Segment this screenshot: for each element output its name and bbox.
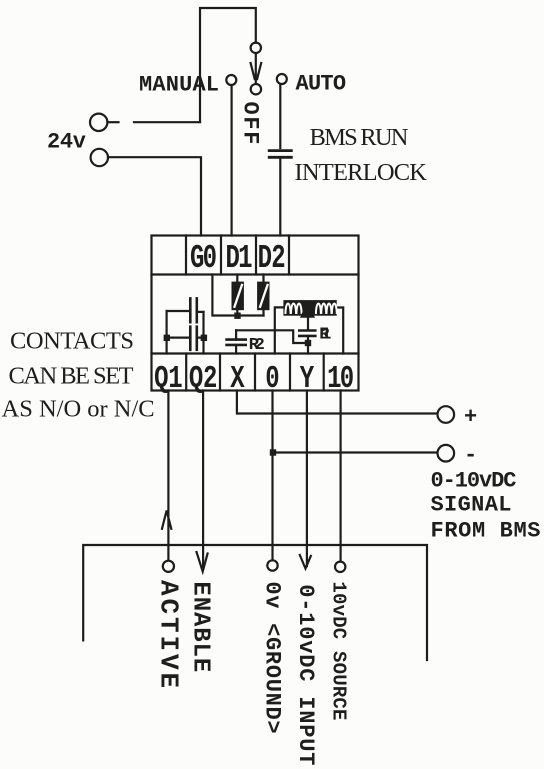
wire 24v top to rail (134, 121, 200, 123)
terminal row dividers top (185, 236, 187, 275)
svg-text:OFF: OFF (238, 102, 263, 145)
node MANUAL terminal (226, 75, 236, 85)
svg-text:ENABLE: ENABLE (187, 581, 214, 673)
wire lower contact left (167, 337, 189, 339)
contact K2 plates lower (189, 327, 192, 350)
wire minus branch (273, 451, 437, 453)
arrow INPUT down (300, 555, 311, 569)
node minus terminal (438, 445, 455, 462)
wire Q1 net vertical (166, 311, 168, 354)
junction dot contact left (164, 335, 170, 341)
svg-text:CAN BE SET: CAN BE SET (9, 363, 134, 390)
svg-text:Q1: Q1 (154, 362, 183, 397)
svg-text:Y: Y (300, 362, 315, 397)
wire Q2 net vertical (202, 312, 204, 354)
svg-text:ACTIVE: ACTIVE (154, 580, 184, 691)
controller block outline U1 (152, 236, 359, 391)
wire R2 to X terminal (235, 345, 237, 354)
svg-text:0: 0 (265, 362, 279, 397)
arrow ENABLE down (197, 552, 208, 572)
wire top rail from 24v up and over to switch (200, 8, 256, 122)
junction dot wiper net (305, 340, 311, 346)
svg-text:0-10vDC: 0-10vDC (431, 469, 517, 494)
node 24v top terminal (90, 114, 107, 131)
svg-text:SIGNAL: SIGNAL (431, 493, 512, 518)
svg-text:X: X (230, 362, 245, 397)
svg-text:AS N/O or N/C: AS N/O or N/C (2, 396, 155, 423)
wire AUTO to interlock contact (279, 84, 281, 148)
wire Y down (306, 391, 308, 567)
potentiometer R1 body (283, 300, 336, 316)
node ACTIVE terminal (163, 561, 174, 572)
wire pot wiper down (307, 318, 309, 331)
node 0v terminal (267, 560, 277, 570)
junction dot contact right (201, 335, 207, 341)
wire D2 to coil2 (262, 275, 264, 282)
contact BMS RUN INTERLOCK (269, 149, 291, 152)
wire 24v bottom to G0 (108, 157, 201, 235)
node AUTO terminal (277, 74, 287, 84)
wire interlock to D2 (279, 159, 281, 236)
svg-text:FROM BMS: FROM BMS (431, 519, 541, 544)
svg-text:G0: G0 (190, 239, 217, 277)
svg-text:0v <GROUND>: 0v <GROUND> (260, 581, 285, 734)
svg-text:BMS RUN: BMS RUN (310, 124, 409, 151)
relay coil L2 (257, 282, 269, 311)
node 24v bottom terminal (91, 149, 108, 166)
svg-text:AUTO: AUTO (296, 71, 347, 96)
box drive outline bottom (83, 545, 427, 660)
wire MANUAL to D1 (231, 85, 233, 235)
junction dot minus branch (270, 449, 276, 455)
contact K1 plates upper (189, 298, 192, 322)
wire R2 top (235, 330, 237, 339)
svg-text:D2: D2 (258, 239, 286, 277)
capacitor R2 bars (227, 338, 246, 341)
wire coil1 bottom (236, 310, 238, 315)
svg-text:R2: R2 (249, 336, 265, 355)
svg-text:D1: D1 (226, 239, 253, 277)
svg-text:INTERLOCK: INTERLOCK (295, 159, 428, 186)
wire Q2 down (202, 391, 204, 570)
arrow up chevron on Q1 wire (162, 511, 171, 529)
svg-text:-: - (464, 443, 477, 468)
svg-text:10vDC SOURCE: 10vDC SOURCE (328, 581, 350, 720)
wire upper right stub (198, 311, 204, 313)
capacitor C-R1 bars (299, 329, 315, 332)
wire coil2 bottom (262, 310, 264, 315)
svg-text:24v: 24v (47, 130, 86, 155)
wire 10 down (340, 391, 342, 562)
wire Q1 down (167, 391, 169, 561)
wire 24v top stub (108, 121, 119, 123)
wire X to plus terminal (237, 391, 437, 414)
wire G0 to coil rail (212, 275, 263, 316)
terminal row dividers bottom (185, 354, 187, 391)
svg-text:CONTACTS: CONTACTS (10, 328, 134, 355)
node plus terminal (438, 406, 455, 423)
wire O down (271, 391, 273, 561)
wire pot right to 10 terminal (337, 308, 344, 354)
svg-text:MANUAL: MANUAL (139, 73, 219, 98)
potentiometer wiper arrow (300, 301, 315, 318)
svg-text:+: + (464, 405, 477, 430)
svg-text:10: 10 (327, 362, 354, 397)
svg-text:R1: R1 (319, 326, 331, 345)
svg-text:Q2: Q2 (189, 362, 218, 397)
node 10vDC terminal (335, 562, 345, 572)
wire Q1 upper stub (167, 310, 189, 312)
wire pot left to O terminal (275, 307, 284, 353)
wire cap to Y terminal (307, 336, 309, 354)
junction dot coil rail (234, 313, 240, 319)
svg-text:0-10vDC INPUT: 0-10vDC INPUT (293, 584, 318, 766)
wire D1 to coil1 (236, 275, 238, 282)
switch S1 selector (251, 43, 261, 53)
relay coil L1 (232, 282, 244, 311)
wire R2 rail (236, 330, 308, 343)
wire lower contact right (198, 337, 204, 339)
